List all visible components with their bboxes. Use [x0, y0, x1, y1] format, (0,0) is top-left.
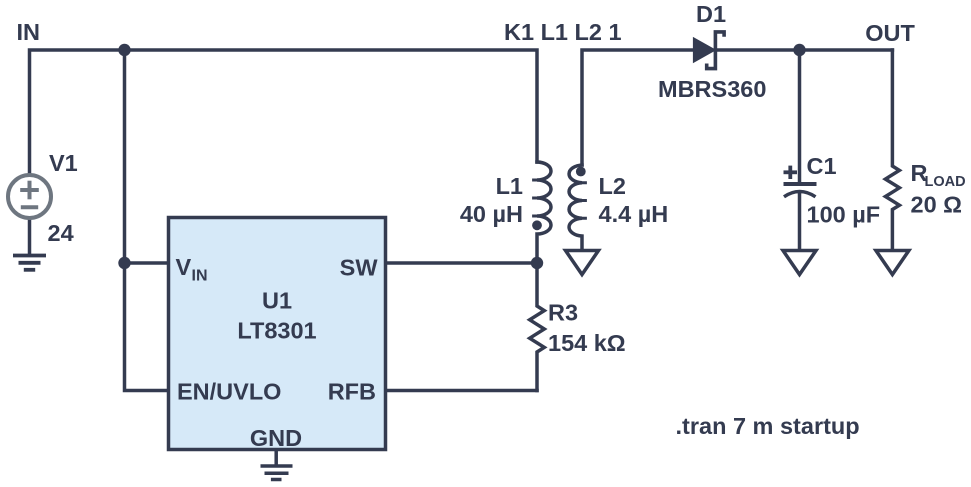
svg-text:IN: IN	[17, 19, 41, 45]
svg-text:V1: V1	[49, 150, 78, 176]
svg-text:OUT: OUT	[865, 20, 915, 46]
svg-text:D1: D1	[696, 1, 726, 27]
svg-text:100 µF: 100 µF	[807, 202, 881, 228]
svg-text:4.4 µH: 4.4 µH	[599, 201, 669, 227]
svg-text:24: 24	[48, 220, 74, 246]
svg-text:IN: IN	[192, 268, 208, 285]
svg-text:L1: L1	[496, 173, 523, 199]
svg-text:L2: L2	[599, 173, 626, 199]
svg-text:40 µH: 40 µH	[460, 201, 523, 227]
svg-text:V: V	[176, 254, 192, 280]
svg-text:SW: SW	[340, 255, 379, 281]
svg-text:RFB: RFB	[328, 379, 376, 405]
svg-text:GND: GND	[250, 425, 302, 451]
svg-text:K1 L1 L2 1: K1 L1 L2 1	[504, 19, 622, 45]
svg-text:R3: R3	[548, 300, 578, 326]
svg-text:U1: U1	[262, 288, 292, 314]
svg-text:.tran 7 m startup: .tran 7 m startup	[676, 413, 860, 439]
svg-text:154 kΩ: 154 kΩ	[548, 330, 626, 356]
svg-text:20 Ω: 20 Ω	[911, 192, 963, 218]
svg-text:MBRS360: MBRS360	[658, 76, 766, 102]
svg-text:LT8301: LT8301	[237, 318, 316, 344]
svg-text:EN/UVLO: EN/UVLO	[177, 379, 281, 405]
svg-text:C1: C1	[807, 153, 837, 179]
svg-text:LOAD: LOAD	[925, 174, 966, 190]
